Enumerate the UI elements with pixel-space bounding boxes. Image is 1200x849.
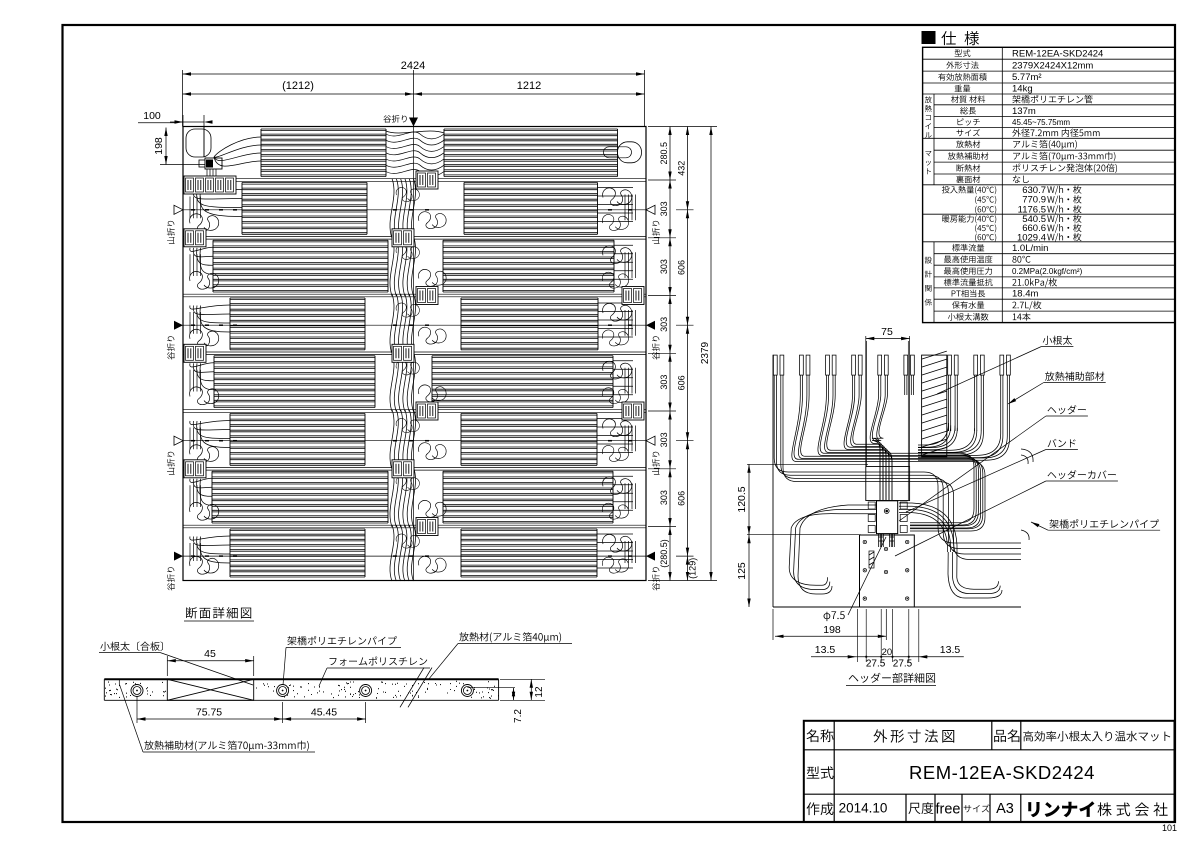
svg-text:free: free [936, 802, 961, 818]
svg-text:0.2MPa(2.0kgf/cm²): 0.2MPa(2.0kgf/cm²) [1012, 267, 1083, 276]
svg-text:27.5: 27.5 [893, 659, 913, 670]
svg-text:2379: 2379 [700, 341, 711, 364]
header detail dims [865, 336, 867, 466]
fold markers and labels [174, 205, 183, 214]
svg-text:REM-12EA-SKD2424: REM-12EA-SKD2424 [909, 762, 1095, 783]
svg-text:REM-12EA-SKD2424: REM-12EA-SKD2424 [1012, 49, 1103, 60]
connector boxes [184, 176, 236, 194]
cross-section caption 断面詳細図 [186, 607, 197, 619]
svg-text:1029.4: 1029.4 [1017, 232, 1046, 243]
svg-text:14kg: 14kg [1012, 84, 1033, 95]
title block [804, 721, 1175, 822]
svg-text:(280.5): (280.5) [659, 539, 669, 568]
spec table heat input rows [942, 186, 950, 194]
svg-text:198: 198 [153, 137, 165, 155]
svg-text:7.2: 7.2 [513, 709, 524, 723]
svg-text:75.75: 75.75 [196, 707, 222, 719]
svg-text:303: 303 [659, 317, 669, 332]
header detail leader labels [1043, 336, 1052, 345]
right dimension chains [648, 126, 676, 128]
dimension 198 [182, 70, 184, 127]
header cover [772, 355, 774, 607]
svg-text:45: 45 [204, 648, 216, 660]
cross-section labels [100, 642, 109, 651]
svg-text:198: 198 [823, 624, 841, 636]
svg-text:280.5: 280.5 [659, 142, 669, 165]
svg-text:20: 20 [882, 647, 893, 658]
svg-text:13.5: 13.5 [940, 644, 961, 656]
spec table design rows [952, 244, 960, 252]
svg-text:A3: A3 [996, 801, 1014, 817]
svg-text:303: 303 [659, 375, 669, 390]
svg-text:18.4m: 18.4m [1012, 289, 1038, 300]
svg-text:45.45~75.75mm: 45.45~75.75mm [1012, 118, 1070, 127]
title block texts [806, 729, 818, 742]
spec table grid [923, 47, 1175, 322]
spec table rows [955, 49, 962, 56]
svg-text:303: 303 [659, 490, 669, 505]
svg-text:75: 75 [881, 326, 893, 338]
mat center fold line [413, 127, 415, 581]
svg-text:27.5: 27.5 [866, 659, 886, 670]
svg-text:2424: 2424 [401, 60, 425, 72]
svg-text:13.5: 13.5 [815, 644, 836, 656]
top-left inlet fitting [186, 129, 211, 157]
svg-text:(1212): (1212) [282, 80, 314, 92]
cross-section dims [166, 656, 168, 676]
mat fold lines [183, 209, 646, 211]
svg-text:606: 606 [677, 375, 687, 390]
svg-text:137m: 137m [1012, 106, 1036, 117]
heating pipe stripe panels [261, 129, 618, 177]
svg-text:2014.10: 2014.10 [839, 801, 888, 816]
svg-text:606: 606 [677, 491, 687, 506]
svg-text:1212: 1212 [517, 80, 541, 92]
spec table title ■仕様 [922, 32, 935, 44]
svg-text:606: 606 [677, 260, 687, 275]
mat band boundary lines [183, 178, 646, 180]
svg-text:303: 303 [659, 432, 669, 447]
pipe loop motifs [386, 131, 444, 133]
svg-text:432: 432 [677, 161, 687, 176]
svg-text:125: 125 [736, 562, 748, 580]
mat outline [183, 127, 646, 581]
svg-text:120.5: 120.5 [736, 486, 748, 512]
svg-text:12: 12 [534, 686, 545, 698]
svg-text:45.45: 45.45 [311, 707, 337, 719]
svg-text:5.77m²: 5.77m² [1012, 72, 1042, 83]
header detail caption [849, 675, 859, 681]
svg-text:1.0L/min: 1.0L/min [1012, 243, 1048, 254]
svg-text:100: 100 [143, 110, 161, 122]
svg-text:303: 303 [659, 259, 669, 274]
svg-text:(129): (129) [688, 558, 698, 579]
svg-text:2379X2424X12mm: 2379X2424X12mm [1012, 60, 1093, 71]
svg-text:303: 303 [659, 201, 669, 216]
spec table group labels [925, 96, 932, 103]
cross-section break marks [104, 678, 498, 680]
svg-text:101: 101 [1162, 823, 1177, 833]
